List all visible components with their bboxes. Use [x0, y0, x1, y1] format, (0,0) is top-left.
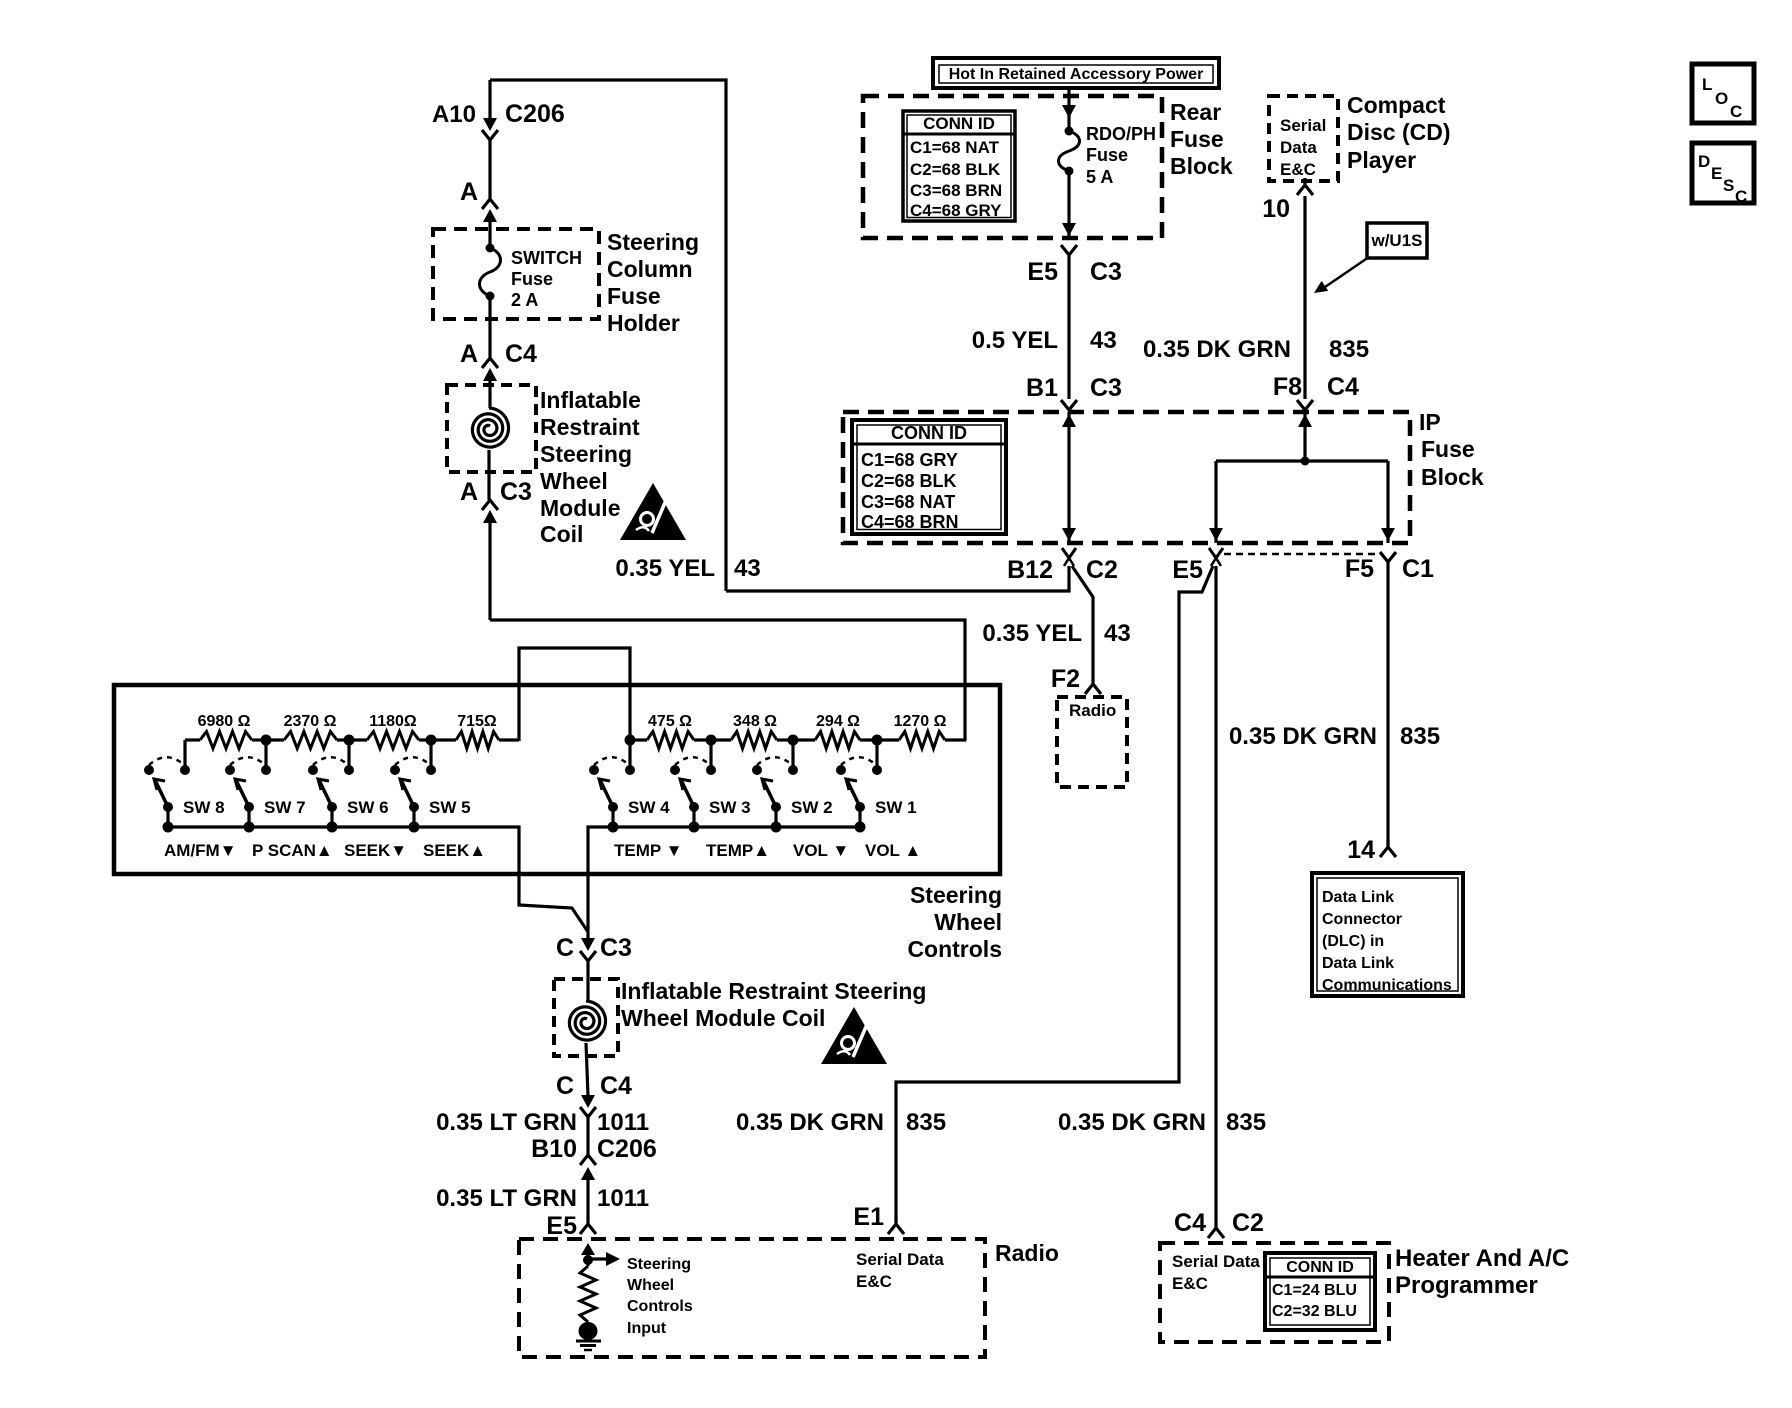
svg-text:6980 Ω: 6980 Ω: [198, 713, 251, 730]
svg-text:F8: F8: [1273, 373, 1302, 401]
label 0.35 LT GRN (lower): [436, 1185, 577, 1212]
label SW 7: [264, 798, 306, 817]
svg-text:475 Ω: 475 Ω: [648, 713, 692, 730]
svg-text:Communications: Communications: [1322, 977, 1452, 994]
connector C3 chevron+arrow (left column): [482, 500, 498, 620]
svg-text:Fuse: Fuse: [1421, 436, 1475, 462]
connector C206 arrow+chevron at A10: [482, 118, 498, 199]
label 0.35 DK GRN (heater): [1058, 1109, 1206, 1136]
connector C2 chevron (heater): [1208, 1221, 1224, 1238]
label C206 (top): [505, 100, 565, 128]
svg-text:C2: C2: [1086, 556, 1118, 584]
switch SW 4: [589, 740, 635, 833]
svg-text:Inflatable Restraint Steering: Inflatable Restraint Steering: [621, 978, 926, 1004]
svg-text:Steering: Steering: [910, 882, 1002, 908]
svg-text:C3: C3: [1090, 258, 1122, 286]
radio branch arrow right: [588, 1252, 620, 1266]
label w/U1S: [1370, 231, 1422, 250]
svg-text:Wheel: Wheel: [540, 468, 608, 494]
label 294 ohm: [816, 713, 860, 730]
svg-text:Fuse: Fuse: [1170, 126, 1224, 152]
switch SW 8: [144, 740, 190, 833]
svg-text:0.35 DK GRN: 0.35 DK GRN: [1143, 336, 1291, 363]
heater dashed box: [1160, 1243, 1389, 1342]
label SW 6: [347, 798, 389, 817]
svg-text:A: A: [460, 478, 478, 506]
label Rear Fuse Block: [1170, 99, 1233, 179]
svg-text:E1: E1: [853, 1203, 884, 1231]
svg-text:Steering: Steering: [540, 441, 632, 467]
svg-text:VOL ▼: VOL ▼: [793, 841, 849, 860]
node junction R2-R1: [872, 735, 883, 746]
label 835 (CD): [1329, 336, 1369, 363]
svg-text:835: 835: [1226, 1109, 1266, 1136]
svg-text:C1=24 BLU: C1=24 BLU: [1272, 1282, 1357, 1299]
IP fuse block dashed box: [843, 412, 1410, 543]
connector B12 chevron: [1062, 548, 1076, 566]
svg-text:CONN ID: CONN ID: [1286, 1259, 1354, 1276]
svg-text:1011: 1011: [597, 1109, 649, 1136]
wire F8 into bus: [1298, 412, 1312, 461]
resistor R8 6980 ohm: [185, 732, 266, 749]
svg-text:Heater And A/C: Heater And A/C: [1395, 1245, 1569, 1272]
label 0.35 YEL (lower): [982, 620, 1082, 647]
svg-text:(DLC) in: (DLC) in: [1322, 933, 1384, 950]
label C (C4): [556, 1072, 574, 1100]
svg-text:P SCAN▲: P SCAN▲: [252, 841, 333, 860]
warning triangle (top): [620, 483, 686, 540]
wire B12 to F2 radio: [1072, 566, 1093, 684]
svg-text:C: C: [1730, 102, 1742, 121]
switch SW 6: [308, 740, 354, 833]
svg-text:Block: Block: [1421, 464, 1484, 490]
label E5 (top): [1027, 258, 1058, 286]
svg-text:SW 1: SW 1: [875, 798, 917, 817]
label SW 2: [791, 798, 833, 817]
svg-text:835: 835: [906, 1109, 946, 1136]
label Serial Data E&C (heater): [1172, 1252, 1260, 1293]
svg-text:348 Ω: 348 Ω: [733, 713, 777, 730]
svg-text:E5: E5: [1172, 556, 1203, 584]
IP CONN ID table: [852, 420, 1006, 534]
svg-text:E&C: E&C: [1172, 1274, 1208, 1293]
connector E5/C3 chevron (top): [1061, 245, 1077, 399]
label Hot In Retained Accessory Power: [949, 66, 1204, 83]
svg-text:VOL ▲: VOL ▲: [865, 841, 921, 860]
IP internal bus: [1216, 459, 1388, 462]
svg-text:C: C: [556, 1072, 574, 1100]
labels rear conn rows: [910, 138, 1002, 220]
label 0.35 DK GRN (F5): [1229, 723, 1377, 750]
coil U1 inflatable restraint steering wheel module coil: [472, 408, 508, 500]
label SW 8: [183, 798, 225, 817]
svg-text:C4: C4: [1327, 373, 1359, 401]
svg-text:2370 Ω: 2370 Ω: [284, 713, 337, 730]
label SWITCH Fuse 2A: [511, 248, 582, 310]
svg-text:TEMP▲: TEMP▲: [706, 841, 770, 860]
coil dashed box (top): [447, 385, 536, 472]
svg-text:F5: F5: [1345, 555, 1374, 583]
svg-text:Serial: Serial: [1280, 116, 1326, 135]
resistor R7 2370 ohm: [266, 732, 349, 749]
DESC legend box: [1692, 143, 1754, 203]
label 835 (E1): [906, 1109, 946, 1136]
svg-text:2 A: 2 A: [511, 290, 538, 310]
label Heater And A/C Programmer: [1395, 1245, 1569, 1299]
label 475 ohm: [648, 713, 692, 730]
fuse RDO/PH wire+arrows: [1062, 88, 1076, 238]
label C3 (left column): [500, 478, 532, 506]
connector C/C4 arrow+chevron: [580, 1095, 596, 1155]
svg-text:C4=68 BRN: C4=68 BRN: [861, 512, 959, 532]
IP fine dashed segment E5-F5: [1224, 553, 1380, 556]
svg-text:Player: Player: [1347, 147, 1416, 173]
ground blob radio: [579, 1322, 598, 1340]
label SW 5: [429, 798, 471, 817]
svg-text:B10: B10: [531, 1135, 577, 1163]
svg-text:C4: C4: [505, 340, 537, 368]
svg-text:B12: B12: [1007, 556, 1053, 584]
svg-text:SW 6: SW 6: [347, 798, 389, 817]
label 715 ohm: [457, 713, 497, 730]
Hot In Retained Accessory Power box: [933, 58, 1219, 88]
label 835 (F5): [1400, 723, 1440, 750]
wire E5 to heater: [1214, 566, 1217, 1223]
svg-text:C1=68 GRY: C1=68 GRY: [861, 450, 958, 470]
ground symbol radio: [576, 1341, 601, 1350]
label Inflatable Restraint Steering Wheel Module Coil: [540, 387, 641, 547]
label F8: [1273, 373, 1302, 401]
label 43 (0.5 YEL): [1090, 327, 1117, 354]
connector F8 chevron: [1297, 400, 1313, 410]
label DESC: [1698, 152, 1747, 206]
label B12: [1007, 556, 1053, 584]
svg-text:O: O: [1715, 89, 1728, 108]
svg-text:AM/FM▼: AM/FM▼: [164, 841, 237, 860]
radio F2 dashed box: [1057, 697, 1127, 787]
label F5: [1345, 555, 1374, 583]
svg-text:C: C: [1735, 187, 1747, 206]
svg-text:C3: C3: [500, 478, 532, 506]
fuse RDO/PH 5A symbol: [1059, 127, 1080, 176]
w/U1S callout box: [1367, 223, 1427, 258]
svg-text:CONN ID: CONN ID: [891, 423, 967, 443]
svg-text:1180Ω: 1180Ω: [369, 713, 417, 730]
node junction R3-R2: [788, 735, 799, 746]
label Inflatable Restraint Steering Wheel Module Coil (bottom): [621, 978, 926, 1031]
CD player dashed box: [1269, 96, 1338, 181]
svg-text:0.35 DK GRN: 0.35 DK GRN: [1229, 723, 1377, 750]
label 835 (heater): [1226, 1109, 1266, 1136]
svg-text:SW 4: SW 4: [628, 798, 670, 817]
svg-text:SW 2: SW 2: [791, 798, 833, 817]
heater CONN ID table: [1265, 1253, 1375, 1330]
resistor R2 294 ohm: [793, 732, 877, 749]
svg-text:SW 7: SW 7: [264, 798, 306, 817]
svg-text:0.35 LT GRN: 0.35 LT GRN: [436, 1185, 577, 1212]
warning triangle (bottom): [821, 1007, 887, 1064]
label C (C3): [556, 934, 574, 962]
node F8 bus junction: [1301, 457, 1310, 466]
connector F2 chevron: [1085, 684, 1101, 694]
connector C/C3 arrow+chevron: [580, 938, 596, 1001]
label B10: [531, 1135, 577, 1163]
svg-text:Disc (CD): Disc (CD): [1347, 119, 1451, 145]
svg-text:TEMP ▼: TEMP ▼: [614, 841, 682, 860]
label P SCAN▲: [252, 841, 333, 860]
svg-text:w/U1S: w/U1S: [1370, 231, 1422, 250]
svg-text:IP: IP: [1419, 409, 1441, 435]
svg-text:C1: C1: [1402, 555, 1434, 583]
label 1180 ohm: [369, 713, 417, 730]
wire bus to F5: [1381, 461, 1395, 543]
svg-text:Data Link: Data Link: [1322, 955, 1394, 972]
svg-text:C4: C4: [1174, 1209, 1206, 1237]
svg-text:C4=68 GRY: C4=68 GRY: [910, 201, 1002, 220]
svg-text:C206: C206: [597, 1135, 657, 1163]
label 14: [1347, 836, 1375, 864]
connector 14 chevron: [1380, 840, 1396, 857]
svg-text:Connector: Connector: [1322, 911, 1402, 928]
svg-text:E&C: E&C: [856, 1272, 892, 1291]
label E1: [853, 1203, 884, 1231]
svg-text:Block: Block: [1170, 153, 1233, 179]
svg-text:Input: Input: [627, 1320, 667, 1337]
node radio input junction: [583, 1255, 593, 1265]
label 0.35 YEL (upper): [615, 555, 715, 582]
radio dashed box: [519, 1239, 985, 1357]
LOC legend box: [1692, 64, 1754, 123]
svg-text:Serial Data: Serial Data: [1172, 1252, 1260, 1271]
label 10: [1262, 195, 1290, 223]
svg-text:C3: C3: [1090, 374, 1122, 402]
switch SW 7: [225, 740, 271, 833]
label A10: [432, 101, 476, 128]
svg-text:Holder: Holder: [607, 310, 680, 336]
label Data Link Connector (DLC): [1322, 889, 1452, 994]
connector E1 chevron: [888, 1217, 904, 1234]
rear fuse block dashed box: [863, 96, 1162, 238]
svg-text:E5: E5: [1027, 258, 1058, 286]
svg-text:Coil: Coil: [540, 521, 583, 547]
label TEMP▲: [706, 841, 770, 860]
label Compact Disc (CD) Player: [1347, 92, 1451, 173]
label C4 (heater): [1174, 1209, 1206, 1237]
label VOL ▲: [865, 841, 921, 860]
svg-text:294 Ω: 294 Ω: [816, 713, 860, 730]
label A (mid): [460, 340, 478, 368]
label C3 (B1): [1090, 374, 1122, 402]
coil U2 inflatable restraint steering wheel module coil: [569, 1001, 605, 1096]
label 0.5 YEL: [972, 327, 1058, 354]
svg-text:C3: C3: [600, 934, 632, 962]
wire from coil to steering wheel controls box: [490, 620, 965, 741]
label 1270 ohm: [894, 713, 947, 730]
fuse SWITCH 2A symbol: [480, 244, 501, 359]
svg-text:SWITCH: SWITCH: [511, 248, 582, 268]
svg-text:D: D: [1698, 152, 1710, 171]
connector E5 chevron (IP): [1209, 548, 1223, 566]
node junction bridge-R4: [625, 735, 636, 746]
resistor R3 348 ohm: [711, 732, 793, 749]
svg-text:Wheel Module Coil: Wheel Module Coil: [621, 1005, 825, 1031]
svg-text:E: E: [1711, 164, 1722, 183]
label C206 (B10): [597, 1135, 657, 1163]
svg-text:Hot In Retained Accessory Powe: Hot In Retained Accessory Power: [949, 66, 1204, 83]
svg-text:L: L: [1702, 75, 1712, 94]
svg-text:0.35 YEL: 0.35 YEL: [615, 555, 715, 582]
label 348 ohm: [733, 713, 777, 730]
svg-text:5 A: 5 A: [1086, 167, 1113, 187]
switch SW 2: [752, 740, 798, 833]
svg-text:C206: C206: [505, 100, 565, 128]
svg-text:835: 835: [1329, 336, 1369, 363]
label Steering Wheel Controls: [907, 882, 1002, 962]
svg-text:Data Link: Data Link: [1322, 889, 1394, 906]
wire A10 top loop (490,80)-(726,80)-(726,591): [490, 80, 726, 591]
svg-text:0.35 LT GRN: 0.35 LT GRN: [436, 1109, 577, 1136]
svg-text:715Ω: 715Ω: [457, 713, 497, 730]
wire y591 from loop to B12: [726, 566, 1069, 591]
label Serial Data E&C (CD): [1280, 116, 1326, 179]
svg-text:43: 43: [734, 555, 761, 582]
label 0.35 DK GRN (CD): [1143, 336, 1291, 363]
label A (lower): [460, 478, 478, 506]
switch SW 5: [390, 740, 436, 833]
DLC box: [1312, 873, 1463, 996]
wire bus to E5: [1209, 461, 1223, 543]
svg-text:RDO/PH: RDO/PH: [1086, 124, 1156, 144]
connector F5 chevron: [1380, 552, 1396, 562]
svg-text:SEEK▲: SEEK▲: [423, 841, 486, 860]
svg-text:10: 10: [1262, 195, 1290, 223]
svg-text:0.35 DK GRN: 0.35 DK GRN: [736, 1109, 884, 1136]
label E5 (radio): [546, 1212, 577, 1240]
svg-text:C2=68 BLK: C2=68 BLK: [861, 471, 957, 491]
svg-text:Data: Data: [1280, 138, 1317, 157]
svg-text:A: A: [460, 340, 478, 368]
label CONN ID (IP): [891, 423, 967, 443]
svg-text:14: 14: [1347, 836, 1375, 864]
svg-text:C1=68 NAT: C1=68 NAT: [910, 138, 1000, 157]
svg-text:0.35 YEL: 0.35 YEL: [982, 620, 1082, 647]
fuse holder dashed box: [433, 229, 599, 319]
label F2: [1051, 665, 1080, 693]
node junction R6-R5: [426, 735, 437, 746]
svg-text:S: S: [1723, 176, 1734, 195]
svg-text:Serial Data: Serial Data: [856, 1250, 944, 1269]
svg-text:1270 Ω: 1270 Ω: [894, 713, 947, 730]
resistor R6 1180 ohm: [349, 732, 431, 749]
svg-text:C2=32 BLU: C2=32 BLU: [1272, 1303, 1357, 1320]
label 6980 ohm: [198, 713, 251, 730]
svg-text:Rear: Rear: [1170, 99, 1221, 125]
svg-text:Fuse: Fuse: [607, 283, 661, 309]
svg-text:Radio: Radio: [1069, 701, 1116, 720]
svg-text:SEEK▼: SEEK▼: [344, 841, 407, 860]
resistor R5 715 ohm: [431, 732, 519, 749]
label 1011 (upper): [597, 1109, 649, 1136]
labels IP conn rows: [861, 450, 959, 532]
svg-text:A10: A10: [432, 101, 476, 128]
label Serial Data E&C (radio): [856, 1250, 944, 1291]
label CONN ID (heater): [1286, 1259, 1354, 1276]
label C3 (bottom): [600, 934, 632, 962]
wire A10 vertical segment: [488, 80, 491, 122]
connector A chevron+arrow: [482, 199, 498, 247]
resistor radio input pull-down: [580, 1260, 596, 1322]
label SEEK▲: [423, 841, 486, 860]
svg-text:C: C: [556, 934, 574, 962]
svg-text:0.5 YEL: 0.5 YEL: [972, 327, 1058, 354]
svg-text:CONN ID: CONN ID: [923, 114, 995, 133]
label 1011 (lower): [597, 1185, 649, 1212]
node junction R8-R7: [261, 735, 272, 746]
coil dashed box (bottom): [554, 979, 618, 1056]
svg-text:Column: Column: [607, 256, 693, 282]
label 43 (upper): [734, 555, 761, 582]
label Steering Column Fuse Holder: [607, 229, 699, 336]
label C4 (bottom): [600, 1072, 632, 1100]
label Radio: [995, 1240, 1059, 1266]
svg-text:B1: B1: [1026, 374, 1058, 402]
svg-text:Controls: Controls: [627, 1298, 693, 1315]
label C2 (heater): [1232, 1209, 1264, 1237]
label Radio (F2): [1069, 701, 1116, 720]
label C1 (F5): [1402, 555, 1434, 583]
svg-text:C2=68 BLK: C2=68 BLK: [910, 160, 1001, 179]
svg-text:Steering: Steering: [607, 229, 699, 255]
svg-text:Restraint: Restraint: [540, 414, 640, 440]
svg-text:E5: E5: [546, 1212, 577, 1240]
svg-text:43: 43: [1104, 620, 1131, 647]
label TEMP ▼: [614, 841, 682, 860]
svg-text:F2: F2: [1051, 665, 1080, 693]
label A (top): [460, 178, 478, 206]
svg-text:SW 5: SW 5: [429, 798, 471, 817]
switch SW 3: [670, 740, 716, 833]
svg-text:1011: 1011: [597, 1185, 649, 1212]
label LOC: [1702, 75, 1742, 121]
label SW 3: [709, 798, 751, 817]
connector B1 chevron: [1061, 400, 1077, 410]
wire B1-B12 inside IP block: [1062, 412, 1076, 543]
label SEEK▼: [344, 841, 407, 860]
label 43 (lower): [1104, 620, 1131, 647]
svg-text:C3=68 BRN: C3=68 BRN: [910, 181, 1002, 200]
svg-text:Compact: Compact: [1347, 92, 1446, 118]
resistor R1 1270 ohm: [877, 732, 966, 749]
steering wheel controls box: [114, 685, 1000, 874]
label Steering Wheel Controls Input: [627, 1256, 693, 1337]
wire F5 to DLC: [1386, 562, 1389, 845]
label B1: [1026, 374, 1058, 402]
svg-text:Steering: Steering: [627, 1256, 691, 1273]
label RDO/PH Fuse 5A: [1086, 124, 1156, 187]
bus left (SW8-SW5 common): [168, 827, 588, 932]
svg-text:C4: C4: [600, 1072, 632, 1100]
svg-text:C2: C2: [1232, 1209, 1264, 1237]
svg-text:43: 43: [1090, 327, 1117, 354]
label 2370 ohm: [284, 713, 337, 730]
label 0.35 LT GRN (upper): [436, 1109, 577, 1136]
label AM/FM▼: [164, 841, 237, 860]
switch SW 1: [836, 740, 882, 833]
svg-text:Wheel: Wheel: [627, 1277, 674, 1294]
svg-text:Programmer: Programmer: [1395, 1272, 1538, 1299]
svg-text:Inflatable: Inflatable: [540, 387, 641, 413]
svg-text:Radio: Radio: [995, 1240, 1059, 1266]
